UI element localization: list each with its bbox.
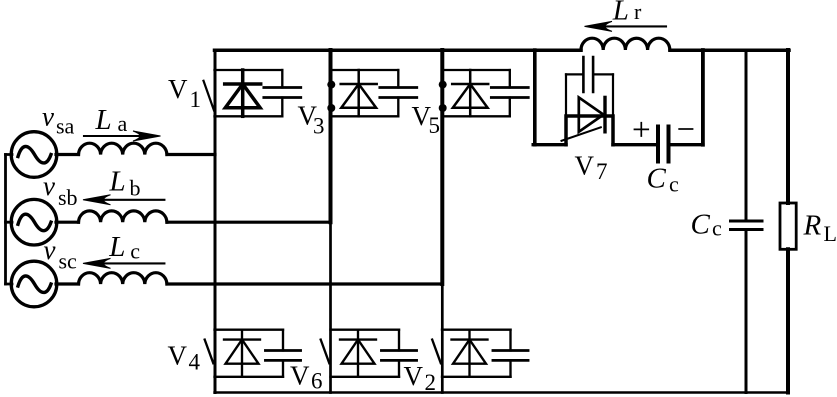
svg-text:1: 1	[190, 87, 202, 112]
svg-text:r: r	[634, 0, 642, 24]
svg-text:sc: sc	[59, 248, 78, 273]
svg-text:v: v	[42, 101, 54, 131]
svg-text:L: L	[824, 221, 837, 246]
svg-text:L: L	[612, 0, 629, 26]
svg-text:a: a	[118, 111, 128, 136]
svg-text:3: 3	[313, 114, 325, 139]
svg-text:c: c	[712, 216, 722, 241]
svg-text:c: c	[669, 171, 679, 196]
svg-text:sa: sa	[56, 113, 75, 138]
svg-text:2: 2	[425, 370, 437, 395]
svg-text:C: C	[647, 162, 667, 194]
svg-text:v: v	[44, 235, 56, 265]
svg-text:sb: sb	[58, 185, 78, 210]
svg-text:V: V	[168, 340, 188, 370]
svg-text:4: 4	[189, 349, 201, 374]
svg-text:c: c	[130, 239, 140, 264]
svg-text:V: V	[575, 151, 595, 181]
svg-text:R: R	[803, 210, 822, 242]
svg-text:v: v	[43, 171, 55, 201]
svg-text:6: 6	[311, 369, 323, 394]
svg-text:L: L	[108, 231, 125, 263]
svg-text:L: L	[109, 166, 126, 198]
svg-text:C: C	[691, 209, 711, 241]
svg-text:V: V	[404, 361, 424, 391]
svg-text:V: V	[290, 361, 310, 391]
svg-text:L: L	[95, 104, 112, 136]
svg-text:7: 7	[596, 159, 608, 184]
svg-text:V: V	[168, 74, 188, 104]
svg-text:5: 5	[429, 113, 441, 138]
svg-text:b: b	[130, 175, 141, 200]
